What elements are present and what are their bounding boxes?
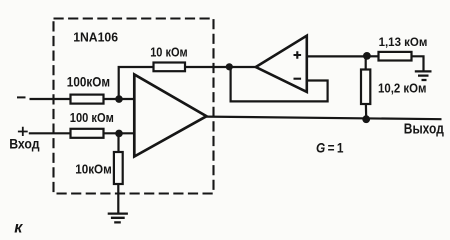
wire input minus xyxy=(30,98,71,100)
node A junction dot xyxy=(115,95,123,103)
resistor R5 1,13 kOm xyxy=(379,52,412,61)
minus input terminal xyxy=(17,96,26,98)
svg-text:10,2 кОм: 10,2 кОм xyxy=(378,81,427,96)
svg-text:Вход: Вход xyxy=(9,136,40,152)
svg-text:100кОм: 100кОм xyxy=(67,74,110,89)
node B junction dot xyxy=(115,130,123,138)
resistor R1 100kOm xyxy=(71,95,104,104)
node C junction dot xyxy=(226,63,233,70)
svg-text:100 кОм: 100 кОм xyxy=(70,111,114,125)
resistor R3 10 kOm feedback xyxy=(154,63,186,72)
svg-text:к: к xyxy=(14,219,23,236)
dashed IC boundary box xyxy=(54,19,214,194)
op-amp U1 xyxy=(134,75,206,157)
svg-text:10 кОм: 10 кОм xyxy=(150,44,188,59)
wire R4 to ground xyxy=(117,184,119,214)
wire input plus xyxy=(29,132,71,134)
wire R1 to node A xyxy=(104,98,135,100)
resistor R6 10,2 kOm xyxy=(361,70,370,105)
U2 minus input mark xyxy=(294,78,302,80)
node D output junction dot xyxy=(362,115,370,123)
wire R6 to node D xyxy=(365,104,368,119)
wire node E down to R6 xyxy=(365,56,367,69)
wire node E to R5 xyxy=(367,55,379,57)
wire R5 to ground xyxy=(412,56,424,71)
svg-text:10кОм: 10кОм xyxy=(75,163,112,177)
svg-text:Выход: Выход xyxy=(404,122,444,138)
wire U2 feedback loop xyxy=(231,67,328,101)
wire U2 plus input to divider node E xyxy=(307,55,367,57)
ground symbol top right xyxy=(415,71,432,80)
wire R2 to node B xyxy=(104,132,135,134)
wire node A up to feedback rail xyxy=(119,67,154,99)
node E junction dot xyxy=(363,52,371,60)
svg-text:G = 1: G = 1 xyxy=(316,139,344,155)
svg-text:1,13 кОм: 1,13 кОм xyxy=(379,35,428,49)
wire node B down to R4 xyxy=(117,133,119,152)
plus input terminal xyxy=(18,127,28,136)
resistor R4 10kOm to ground xyxy=(114,152,123,184)
svg-text:1NA106: 1NA106 xyxy=(73,29,118,44)
op-amp U2 buffer xyxy=(256,36,307,92)
wire U1 output bus to Vykhod xyxy=(207,117,442,120)
U2 plus input mark xyxy=(294,51,302,59)
ground symbol bottom xyxy=(108,214,128,223)
resistor R2 100 kOm xyxy=(71,129,104,138)
wire R3 to node C xyxy=(185,66,256,68)
